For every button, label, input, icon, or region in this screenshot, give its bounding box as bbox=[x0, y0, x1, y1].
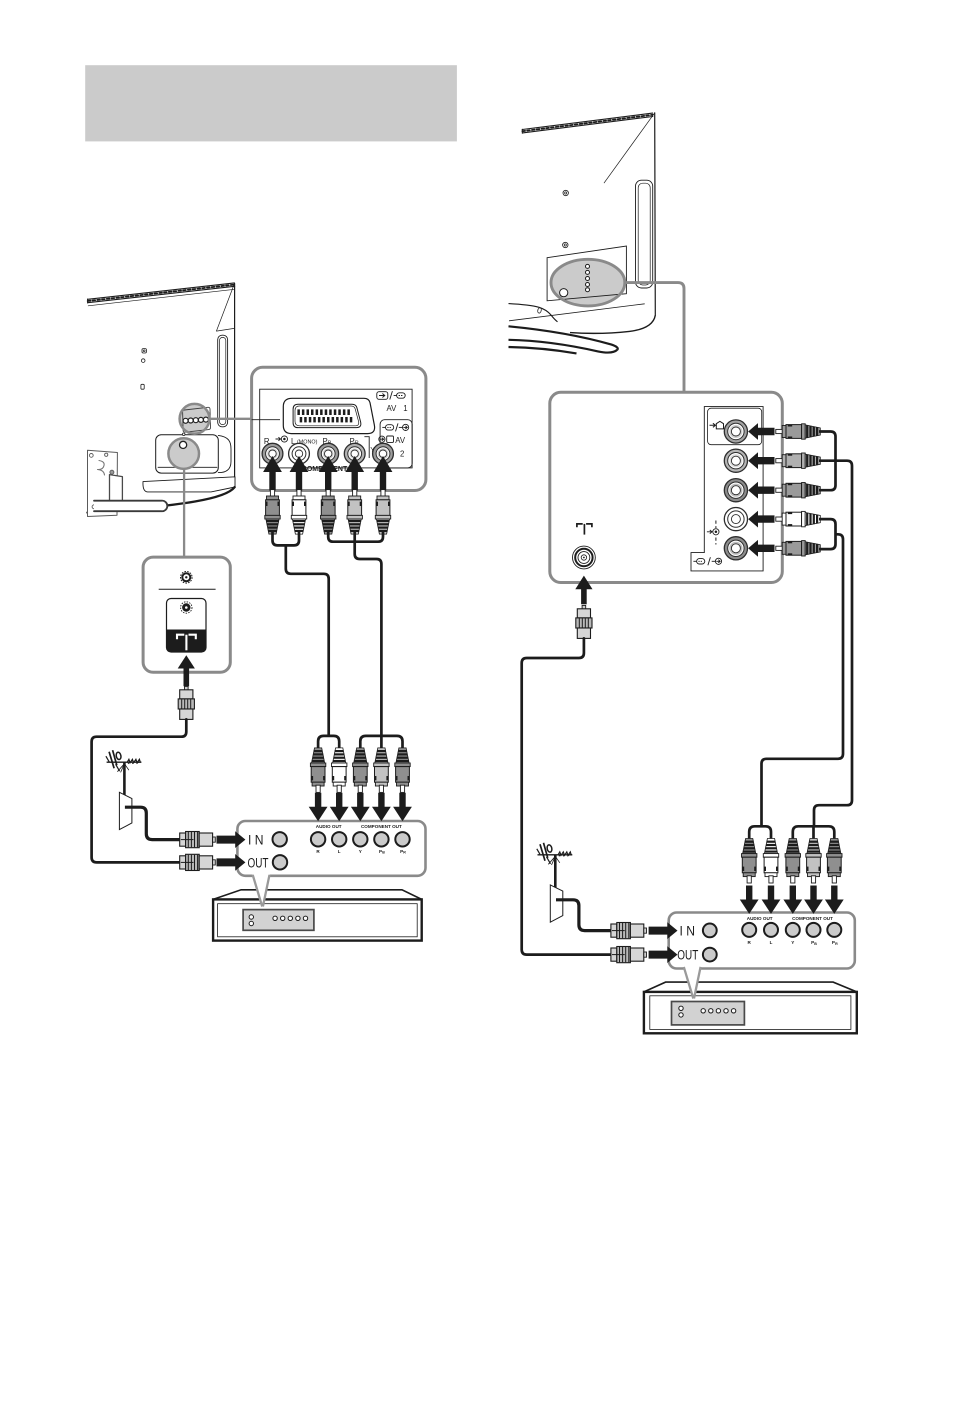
divider line bbox=[252, 419, 280, 421]
arrow into OUT B bbox=[649, 946, 678, 963]
TV B right edge bbox=[654, 113, 657, 315]
aerial plug into OUT bbox=[180, 854, 216, 870]
TV B jack dot 1 bbox=[586, 264, 590, 268]
AV1 in/out icon bbox=[377, 391, 405, 399]
svg-text:I N: I N bbox=[680, 924, 696, 939]
svg-text:R: R bbox=[403, 851, 406, 855]
jack audio L in (TV B) bbox=[724, 479, 747, 502]
svg-text:B: B bbox=[814, 942, 817, 946]
TV A stand leg and base bbox=[110, 475, 123, 503]
TV B handle recess bbox=[636, 180, 653, 288]
aerial box divider bbox=[159, 588, 216, 590]
cable trio Y/PB/PR (yoke) bbox=[328, 532, 383, 542]
TV B rear cabinet top edge bbox=[522, 113, 652, 129]
callout line to panel B bbox=[625, 283, 684, 392]
arrow into VCR B PR bbox=[825, 886, 844, 914]
cable branch down to VCR B bbox=[762, 534, 844, 827]
RCA plug Y out B bbox=[785, 839, 800, 884]
svg-text:AUDIO OUT: AUDIO OUT bbox=[316, 824, 342, 829]
jack strip frame bbox=[691, 407, 763, 571]
arrow into audio2 bbox=[748, 540, 774, 557]
arrow into video in bbox=[748, 423, 774, 440]
IN jack B bbox=[703, 924, 717, 938]
jack panel TV A bbox=[252, 367, 426, 490]
TV B jack dot 3 bbox=[586, 277, 590, 281]
TV B aerial socket bbox=[560, 289, 568, 297]
TV B jack dot 4 bbox=[586, 283, 590, 287]
video in box bbox=[708, 408, 762, 445]
VCR A jack R bbox=[311, 832, 325, 846]
aerial cable plug TV A bbox=[178, 686, 194, 719]
RCA plug PR out bbox=[395, 748, 410, 793]
VCR B deck body bbox=[644, 982, 857, 992]
highlight circle aerial input bbox=[168, 438, 199, 469]
TV B screw 2 bbox=[563, 242, 568, 247]
header title block bbox=[85, 65, 457, 141]
jack video2 (TV B) bbox=[724, 507, 747, 530]
TV A bottom edge curve bbox=[88, 487, 235, 512]
svg-text:L: L bbox=[338, 849, 341, 854]
svg-text:Y: Y bbox=[359, 849, 362, 854]
VCR B jack PR bbox=[827, 923, 841, 937]
TV A bottom ledge bbox=[143, 477, 235, 492]
VCR B front controls bbox=[672, 1002, 745, 1025]
VCR A deck body bbox=[213, 890, 422, 900]
lower yoke audio pair B bbox=[749, 826, 771, 838]
AV2 video icon bbox=[379, 436, 394, 442]
arrow into VCR A PB bbox=[372, 793, 391, 821]
VCR B jack PB bbox=[807, 923, 821, 937]
aerial cable plug TV B bbox=[576, 605, 592, 638]
bottom icons bbox=[693, 557, 721, 565]
arrow into aerial box bbox=[178, 655, 195, 686]
callout line to jack panel bbox=[209, 418, 251, 420]
callout line to aerial box bbox=[183, 469, 185, 557]
cable pair lower yoke bbox=[318, 736, 339, 749]
TV A right edge bbox=[234, 284, 236, 488]
arrow into VCR B R bbox=[740, 886, 759, 914]
scart pins bbox=[297, 409, 300, 415]
arrow into VCR A Y bbox=[351, 793, 370, 821]
svg-text:2: 2 bbox=[400, 449, 404, 458]
jack video in (TV B) bbox=[724, 420, 747, 443]
aerial symbol white bbox=[177, 635, 196, 651]
audio in icon bbox=[276, 436, 288, 442]
RCA plug audio R in bbox=[776, 453, 821, 468]
VCR B rounded panel bbox=[669, 913, 855, 969]
svg-text:AV: AV bbox=[395, 436, 406, 445]
VCR A rounded panel bbox=[237, 821, 425, 876]
VCR A jack PR bbox=[395, 832, 409, 846]
TV B jack dot 5 bbox=[586, 288, 590, 292]
RCA plug into AV2 bbox=[375, 490, 390, 534]
arrow into OUT bbox=[217, 854, 246, 871]
arrow into jack PB bbox=[319, 456, 338, 491]
arrow into VCR B PB bbox=[804, 886, 823, 914]
RCA plug video in bbox=[776, 424, 821, 439]
jack audio2 (TV B) bbox=[724, 537, 747, 560]
VCR A jack Y bbox=[353, 832, 367, 846]
VCR B jack R bbox=[742, 923, 756, 937]
svg-text:Y: Y bbox=[791, 940, 794, 945]
cable U jack1-jack3 bbox=[819, 432, 836, 491]
jack audio R in (TV B) bbox=[724, 449, 747, 472]
arrow into jack AV2 bbox=[374, 456, 393, 491]
antenna cable to VCR B IN bbox=[556, 900, 612, 931]
TV B screw 1 bbox=[563, 190, 568, 195]
TV A screw 3 bbox=[141, 384, 144, 389]
arrow into VCR A L bbox=[330, 793, 349, 821]
svg-text:COMPONENT OUT: COMPONENT OUT bbox=[361, 824, 402, 829]
arrow into jack L bbox=[290, 456, 309, 491]
RCA plug audio L out bbox=[332, 748, 347, 793]
RCA plug audio R out bbox=[310, 748, 325, 793]
arrow into jack R bbox=[263, 456, 282, 491]
RCA plug Y out bbox=[353, 748, 368, 793]
inner frame bbox=[260, 389, 412, 468]
TV B stand bbox=[509, 304, 656, 354]
RCA plug audio L out B bbox=[763, 839, 778, 884]
cable from jack2 down bbox=[814, 461, 852, 827]
aerial box connector bbox=[181, 572, 193, 584]
jack L (TV A panel) bbox=[289, 443, 310, 464]
aerial cable to VCR B OUT bbox=[522, 638, 612, 954]
TV B jack dot 2 bbox=[586, 270, 590, 274]
jack R (TV A panel) bbox=[262, 443, 283, 464]
RCA plug video2 bbox=[776, 511, 821, 526]
callout tail to VCR B bbox=[684, 967, 701, 999]
antenna cable to VCR IN bbox=[125, 807, 181, 839]
antenna plug into IN B bbox=[611, 923, 647, 939]
svg-text:I N: I N bbox=[248, 832, 264, 847]
arrow into aerial jack B bbox=[575, 576, 592, 605]
RCA plug PB out B bbox=[806, 839, 821, 884]
cable pair R/L (yoke) bbox=[273, 532, 300, 545]
svg-text:OUT: OUT bbox=[677, 947, 698, 962]
TV A screw 1 bbox=[142, 349, 146, 353]
svg-text:Y: Y bbox=[370, 447, 375, 454]
aerial box TV A bbox=[143, 557, 230, 672]
VCR B jack Y bbox=[786, 923, 800, 937]
audio in icon bbox=[707, 529, 719, 535]
svg-text:B: B bbox=[382, 851, 385, 855]
RCA plug into PB bbox=[321, 490, 336, 534]
lower yoke component trio B bbox=[793, 826, 835, 838]
arrow into VCR A PR bbox=[393, 793, 412, 821]
RCA plug into R bbox=[265, 490, 280, 534]
aerial input diagram bbox=[167, 599, 207, 653]
OUT jack B bbox=[703, 948, 717, 962]
jack PR (TV A panel) bbox=[344, 443, 365, 464]
antenna plug into IN bbox=[180, 832, 216, 848]
RCA plug audio L in bbox=[776, 483, 821, 498]
RCA plug audio R out B bbox=[742, 839, 757, 884]
VCR A front controls bbox=[243, 910, 314, 931]
jack panel TV B bbox=[550, 392, 783, 582]
scart socket AV1 bbox=[283, 398, 374, 433]
arrow into audio L in bbox=[748, 482, 774, 499]
svg-text:L: L bbox=[770, 940, 773, 945]
svg-text:R: R bbox=[835, 942, 838, 946]
cable trio stem down bbox=[355, 532, 382, 736]
arrow into video2 bbox=[748, 511, 774, 528]
aerial cable to VCR OUT bbox=[92, 719, 187, 862]
AV2 box bbox=[380, 420, 412, 468]
TV A rear cabinet top edge bbox=[88, 283, 235, 299]
callout tail to VCR A bbox=[253, 874, 270, 906]
TV B corner fold line bbox=[604, 114, 654, 183]
RCA plug PB out bbox=[374, 748, 389, 793]
arrow into VCR B L bbox=[762, 886, 781, 914]
cable pair stem down bbox=[286, 545, 329, 736]
arrow into VCR A R bbox=[309, 793, 328, 821]
TV A stand bracket plate bbox=[88, 450, 118, 516]
jack AV2 (TV A panel) bbox=[373, 443, 394, 464]
IN jack bbox=[273, 832, 287, 846]
aerial plug into OUT B bbox=[611, 947, 647, 963]
arrow into jack PR bbox=[345, 456, 364, 491]
svg-text:COMPONENT OUT: COMPONENT OUT bbox=[792, 916, 833, 921]
TV A corner fold line bbox=[216, 284, 234, 331]
RCA plug audio2 bbox=[776, 541, 821, 556]
roof antenna A bbox=[106, 750, 141, 829]
TV A handle recess bbox=[218, 335, 228, 427]
AV2 in/out icon bbox=[382, 423, 408, 431]
cable U jack4-jack5 bbox=[819, 519, 836, 549]
TV A connector bay recess bbox=[156, 435, 219, 473]
arrow into IN B bbox=[649, 922, 678, 939]
VCR A jack L bbox=[332, 832, 346, 846]
TV B connector plate bbox=[547, 246, 626, 301]
svg-text:AV: AV bbox=[387, 404, 398, 413]
aerial jack TV B bbox=[573, 546, 596, 569]
RCA plug PR out B bbox=[827, 839, 842, 884]
VCR A jack PB bbox=[374, 832, 388, 846]
OUT jack bbox=[273, 855, 287, 869]
highlight circle AV connectors bbox=[180, 404, 210, 434]
roof antenna B bbox=[537, 843, 573, 922]
svg-text:1: 1 bbox=[403, 404, 407, 413]
cable trio lower yoke bbox=[360, 736, 402, 749]
svg-text:OUT: OUT bbox=[248, 855, 269, 870]
video in icon bbox=[710, 421, 724, 429]
arrow into IN bbox=[217, 831, 246, 848]
RCA plug into PR bbox=[347, 490, 362, 534]
arrow into audio R in bbox=[748, 452, 774, 469]
aerial symbol bbox=[577, 524, 592, 535]
highlight ellipse connector area bbox=[551, 259, 625, 306]
TV A screw 2 bbox=[141, 359, 145, 363]
svg-text:AUDIO OUT: AUDIO OUT bbox=[747, 916, 773, 921]
VCR B jack L bbox=[764, 923, 778, 937]
arrow into VCR B Y bbox=[783, 886, 802, 914]
jack PB (TV A panel) bbox=[318, 443, 339, 464]
dashed separator bbox=[715, 521, 717, 529]
RCA plug into L bbox=[291, 490, 306, 534]
